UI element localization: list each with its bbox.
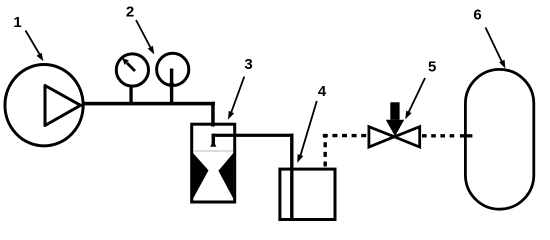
svg-text:5: 5 xyxy=(428,58,436,75)
svg-text:2: 2 xyxy=(126,4,134,21)
svg-text:3: 3 xyxy=(244,56,252,73)
svg-text:6: 6 xyxy=(473,6,481,23)
svg-text:1: 1 xyxy=(13,14,21,31)
svg-text:4: 4 xyxy=(318,83,327,100)
